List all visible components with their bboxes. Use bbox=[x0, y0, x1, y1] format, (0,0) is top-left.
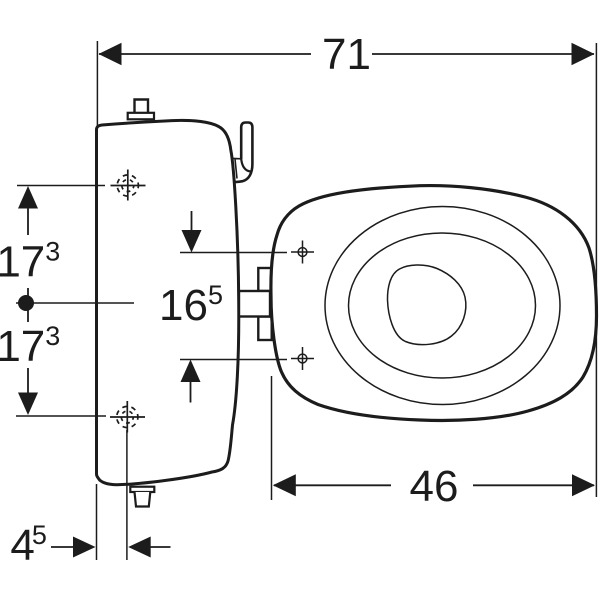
cistern side view outline bbox=[97, 120, 239, 484]
middle dot bbox=[18, 295, 34, 311]
crosshair top-view top hole bbox=[291, 241, 314, 264]
crosshair side bottom (dashed target symbol) bbox=[110, 401, 145, 433]
arrow 46 left bbox=[273, 474, 296, 496]
dim 16.5 top arrow bbox=[191, 211, 193, 230]
seat inner ring bbox=[349, 233, 536, 378]
hinge small rect bottom bbox=[258, 317, 271, 341]
extension line right (shared 71/46) bbox=[595, 43, 597, 497]
dim 16.5 bottom arrow bbox=[181, 360, 201, 383]
arrow 17.3 down bbox=[18, 393, 38, 416]
crosshair top-view bottom hole bbox=[291, 347, 314, 370]
extension line left wall (bottom, 4.5 dim) bbox=[96, 484, 98, 560]
extension line left wall (top) bbox=[96, 41, 98, 126]
flush hook at tank top right bbox=[235, 123, 253, 182]
line y252.5 to top hole bbox=[180, 252, 287, 254]
svg-text:46: 46 bbox=[410, 462, 459, 511]
hook inner curve bbox=[241, 159, 250, 172]
extension line y185.5 bbox=[17, 185, 105, 187]
hook panel edge bbox=[233, 158, 241, 178]
arrow 71 right bbox=[572, 43, 595, 65]
hinge big rect bbox=[239, 291, 270, 317]
dim line 71 bbox=[99, 53, 311, 55]
extension line y416 bbox=[16, 415, 106, 417]
crosshair side top (dashed target symbol) bbox=[111, 170, 146, 201]
seat outer ring bbox=[325, 207, 560, 405]
extension line y303 (middle) bbox=[16, 302, 134, 304]
water surface blob bbox=[387, 265, 465, 345]
dim 17.3 vertical line segments bbox=[27, 205, 29, 235]
bowl outer outline (top view) bbox=[271, 186, 597, 421]
arrow 17.3 up bbox=[18, 186, 38, 209]
centerline below bottom hole bbox=[126, 430, 128, 560]
dim 4.5 right line + arrow bbox=[128, 537, 151, 558]
hinge small rect top bbox=[258, 268, 271, 291]
line y359.5 to bottom hole bbox=[180, 359, 287, 361]
svg-text:71: 71 bbox=[322, 30, 371, 79]
tank bottom bolt bbox=[130, 487, 154, 492]
tank top bolt bbox=[135, 100, 149, 114]
arrow 46 right bbox=[572, 474, 595, 496]
extension line 46 left bbox=[271, 376, 273, 500]
dim 4.5 left line + arrow bbox=[51, 546, 75, 548]
dim line 46 bbox=[274, 484, 391, 486]
arrow 71 left bbox=[99, 43, 122, 65]
